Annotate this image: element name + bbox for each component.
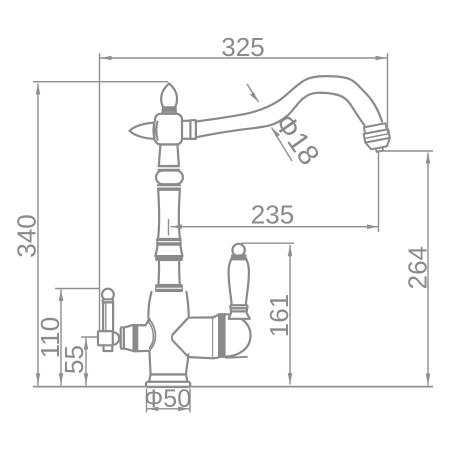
right valve cone notch doubled edges (172, 318, 189, 357)
finial (161, 83, 177, 107)
arrow 55 top (84, 339, 89, 350)
neck column 2 (158, 260, 179, 285)
svg-text:161: 161 (264, 294, 294, 337)
long column (158, 190, 180, 239)
baseline (33, 386, 433, 388)
right handle collar (231, 254, 247, 257)
right handle ball (232, 244, 244, 256)
svg-text:55: 55 (59, 345, 89, 374)
finial neck band (162, 107, 176, 113)
dim line phi18 lower segment (272, 128, 293, 162)
housing right lower edge (186, 354, 188, 374)
dim line 55 (85, 338, 87, 386)
right valve dome bottom lip (226, 357, 247, 358)
left outlet cone from housing (134, 319, 150, 351)
right handle socket (229, 311, 250, 318)
arrow 110 bottom (59, 373, 64, 384)
ext line left (x=99) (99, 53, 101, 331)
ext line faucet top (y=81.7) (33, 81, 168, 83)
spout collar (190, 120, 196, 139)
left outlet cone sections (124, 325, 134, 351)
arrow phi18 lower (272, 128, 281, 138)
left handle ball (102, 289, 114, 301)
bell bottom ring (156, 256, 182, 260)
arrowheads (36, 56, 431, 411)
bell (155, 245, 182, 257)
ext line outlet level (y=151) (377, 150, 433, 152)
main body (155, 114, 182, 145)
arrow 325 left (101, 56, 112, 61)
arrow phi50 right (178, 407, 189, 412)
arrow 264 top (426, 153, 431, 164)
right handle body (229, 258, 249, 305)
left handle cylinder (103, 302, 113, 331)
svg-text:325: 325 (221, 32, 264, 62)
arrow phi18 upper (250, 92, 259, 102)
ext lines phi50 (147, 389, 191, 413)
right valve band (219, 314, 225, 357)
base skirt (149, 375, 188, 382)
dimension texts (12, 32, 433, 413)
dim line 264 (427, 153, 429, 386)
left handle base tab (104, 345, 113, 351)
housing left lower edge (149, 350, 150, 374)
ext line handle top (y=288.5) (55, 288, 100, 290)
svg-text:Ф50: Ф50 (144, 385, 191, 413)
right valve dome (225, 314, 251, 357)
arrow 325 right (376, 56, 387, 61)
ring band 4 (above housing) (156, 285, 182, 291)
ext line 235 right (x=378.5) (378, 152, 380, 232)
aerator (362, 123, 392, 154)
housing bottom line (151, 373, 186, 375)
right handle base rings (230, 305, 247, 308)
dim line phi50 (147, 408, 190, 410)
housing left edge (148, 292, 151, 319)
left outlet collar (121, 327, 124, 348)
ext line side outlet (y=337) (81, 336, 98, 338)
svg-text:235: 235 (251, 200, 294, 230)
arrow 264 bottom (426, 374, 431, 385)
right valve collar white (213, 315, 219, 359)
dim line 325 (100, 57, 387, 59)
arrow 235 left (171, 224, 182, 229)
ring band 1 (159, 166, 180, 170)
svg-text:264: 264 (403, 246, 433, 289)
left outlet fillet arcs (149, 319, 156, 351)
dim line 161 (289, 245, 291, 385)
left outlet band (134, 325, 138, 352)
svg-text:340: 340 (12, 214, 42, 257)
base flange (146, 382, 190, 387)
left hub crescent white (154, 122, 158, 141)
ext tick 235 left (x=168.5) (168, 219, 170, 236)
dim line 110 (60, 290, 62, 386)
spout tube (196, 76, 382, 122)
arrow 110 top (59, 290, 64, 301)
ext line 161 top (y=243.2) (241, 242, 294, 244)
housing right edge (187, 292, 189, 317)
arrow 235 right (367, 224, 378, 229)
right valve cone (189, 317, 214, 358)
neck column 1 (159, 145, 179, 167)
arrow 340 bottom (36, 373, 41, 384)
ring band 2 (158, 185, 180, 188)
arrow phi50 left (148, 407, 159, 412)
ring band 3 (157, 240, 181, 243)
left hub crescent arcs (154, 122, 158, 140)
dim line 235 (171, 226, 379, 228)
left bullet handle (130, 123, 155, 139)
dim line phi18 upper segment (247, 84, 259, 102)
left handle base block (98, 331, 113, 345)
left outlet dome bump (113, 332, 119, 345)
arrow 340 top (36, 84, 41, 95)
lower housing body (148, 292, 189, 375)
left handle neck ring (103, 299, 114, 302)
torus bulge (156, 171, 183, 185)
arrow 161 top (288, 245, 293, 256)
arrow 55 bottom (84, 373, 89, 384)
dim line 340 (37, 84, 39, 386)
arrow 161 bottom (288, 373, 293, 384)
ext line right of spout (x=387.5) (387, 53, 389, 133)
spout hub (182, 121, 190, 139)
